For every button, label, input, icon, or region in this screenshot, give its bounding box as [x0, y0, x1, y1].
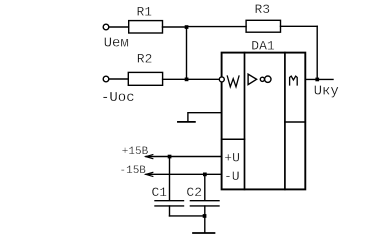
svg-text:Uем: Uем: [104, 36, 129, 52]
svg-text:C1: C1: [152, 185, 168, 200]
svg-text:+U: +U: [224, 150, 240, 165]
svg-text:DA1: DA1: [251, 38, 275, 53]
svg-text:Uку: Uку: [314, 84, 339, 100]
svg-text:R3: R3: [255, 2, 271, 17]
svg-text:R1: R1: [137, 4, 153, 19]
svg-text:-Uос: -Uос: [101, 90, 135, 106]
svg-text:-15В: -15В: [120, 165, 147, 177]
svg-text:C2: C2: [186, 185, 202, 200]
svg-text:-U: -U: [224, 169, 240, 184]
svg-text:+15В: +15В: [122, 146, 149, 158]
svg-text:R2: R2: [137, 52, 153, 67]
